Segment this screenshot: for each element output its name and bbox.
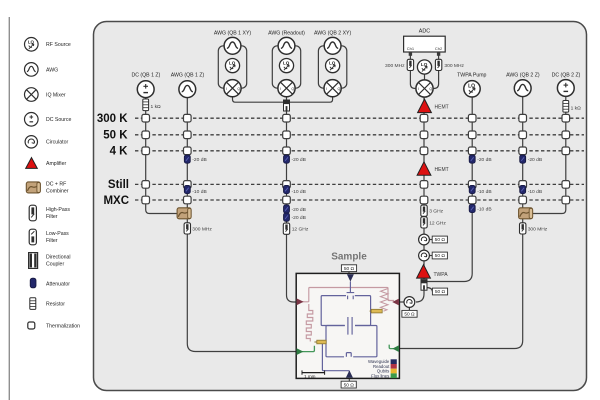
svg-text:Resistor: Resistor bbox=[46, 302, 65, 308]
svg-text:Filter: Filter bbox=[46, 238, 58, 244]
thermalization squares column DC (QB 2 Z) bbox=[562, 114, 570, 203]
svg-text:-20 dB: -20 dB bbox=[477, 157, 491, 163]
filter 300 MHz ADC Ch1 bbox=[385, 59, 414, 70]
wire AWG (QB 2 XY) mixer to coupler bbox=[289, 97, 333, 102]
svg-text:DC Source: DC Source bbox=[46, 117, 71, 123]
svg-text:Ch2: Ch2 bbox=[435, 46, 443, 51]
wire ADC Ch2 to mixer Q port bbox=[434, 52, 439, 89]
legend Low-Pass Filter bbox=[29, 229, 69, 245]
legend AWG bbox=[25, 63, 59, 77]
attenuator -10 dB TWPA pump column bbox=[469, 185, 491, 195]
filter 300 MHz ADC Ch2 bbox=[435, 59, 464, 70]
wire AWG (QB 1 XY) mixer to coupler bbox=[233, 97, 285, 102]
DC + RF combiner right bbox=[519, 208, 533, 219]
attenuator -20 dB col AWG (QB 1 Z) bbox=[184, 155, 206, 163]
svg-text:HEMT: HEMT bbox=[435, 105, 449, 111]
svg-text:-20 dB: -20 dB bbox=[292, 157, 306, 163]
waveguide middle coupling capacitor bbox=[348, 317, 352, 335]
svg-text:300 MHz: 300 MHz bbox=[385, 63, 405, 69]
fridge enclosure bbox=[94, 22, 587, 391]
svg-text:MXC: MXC bbox=[103, 195, 129, 207]
AWG (QB 2 XY) group bbox=[314, 30, 352, 96]
svg-text:Still: Still bbox=[108, 179, 129, 191]
svg-text:DC (QB 2 Z): DC (QB 2 Z) bbox=[552, 72, 581, 78]
attenuator -10 dB col AWG (QB 1 Z) bbox=[184, 185, 206, 195]
svg-text:1 kΩ: 1 kΩ bbox=[571, 106, 582, 112]
filter 3 GHz output column bbox=[421, 205, 444, 216]
thermalization squares column DC (QB 1 Z) bbox=[142, 114, 150, 203]
svg-text:DC (QB 1 Z): DC (QB 1 Z) bbox=[131, 72, 160, 78]
filter 300 MHz right flux bbox=[520, 223, 548, 234]
svg-text:1 kΩ: 1 kΩ bbox=[151, 104, 162, 110]
svg-text:TWPA: TWPA bbox=[434, 272, 449, 278]
50 ohm below sample bbox=[341, 378, 356, 388]
readout feedline (pink) bbox=[297, 288, 395, 302]
50 ohm above sample bbox=[341, 265, 356, 274]
svg-text:300 MHz: 300 MHz bbox=[444, 63, 464, 69]
chip legend colors bbox=[368, 359, 390, 378]
DC + RF combiner left bbox=[177, 208, 191, 219]
svg-text:-10 dB: -10 dB bbox=[477, 189, 491, 195]
svg-text:AWG: AWG bbox=[46, 67, 58, 73]
qubit 2 (yellow) bbox=[370, 309, 383, 313]
wire circulator 1 to 50 ohm bbox=[428, 239, 432, 241]
ADC box bbox=[404, 28, 446, 55]
legend Amplifier bbox=[26, 158, 67, 169]
HEMT amplifier at 300 K bbox=[418, 99, 449, 113]
wire circulator to sample right readout port bbox=[399, 301, 404, 303]
circulator 2 bbox=[419, 250, 430, 261]
qubit 1 (yellow) bbox=[314, 340, 326, 344]
svg-text:Coupler: Coupler bbox=[46, 261, 64, 267]
temperature stage 50 K dashed line bbox=[135, 134, 584, 136]
directional coupler joining XY and readout lines bbox=[284, 100, 290, 111]
svg-text:-20 dB: -20 dB bbox=[292, 207, 306, 213]
port arrow right flux (green) bbox=[392, 345, 399, 352]
svg-text:AWG (Readout): AWG (Readout) bbox=[268, 30, 305, 36]
RF source LO for ADC mixer bbox=[417, 60, 431, 74]
AWG (QB 1 XY) group bbox=[214, 30, 252, 96]
wire readout drive line down to sample left readout port bbox=[287, 97, 298, 302]
thermalization squares column AWG (QB 2 Z) bbox=[519, 114, 527, 203]
attenuator -20 dB readout below MXC first bbox=[284, 205, 306, 213]
legend RF Source bbox=[25, 38, 71, 52]
resistor 1 kOhm right bbox=[563, 101, 581, 113]
thermalization squares column AWG (QB 1 Z) bbox=[184, 114, 192, 203]
svg-text:Circulator: Circulator bbox=[46, 140, 68, 146]
AWG circle AWG (QB 2 Z) bbox=[506, 72, 540, 96]
temperature stage 300 K dashed line bbox=[135, 117, 584, 119]
left page rule bbox=[8, 17, 10, 400]
wire DC (QB 2 Z) column to combiner bbox=[533, 96, 566, 214]
TWPA amplifier bbox=[417, 265, 449, 279]
svg-text:Amplifier: Amplifier bbox=[46, 161, 66, 167]
50 ohm on circulator 2 bbox=[432, 252, 447, 259]
svg-text:IQ Mixer: IQ Mixer bbox=[46, 92, 66, 98]
thermalization squares readout drive column bbox=[283, 114, 291, 203]
attenuator -20 dB readout below MXC second bbox=[284, 213, 306, 221]
svg-text:-10 dB: -10 dB bbox=[477, 206, 491, 212]
directional coupler TWPA pump bbox=[421, 279, 427, 290]
wire DC (QB 1 Z) column to combiner bbox=[146, 98, 177, 214]
temperature stage MXC dashed line bbox=[135, 199, 584, 201]
svg-text:Attenuator: Attenuator bbox=[46, 281, 70, 287]
HEMT amplifier at 4 K bbox=[417, 162, 449, 176]
RF source TWPA Pump bbox=[457, 72, 486, 97]
svg-text:ADC: ADC bbox=[419, 28, 430, 34]
svg-text:AWG (QB 1 Z): AWG (QB 1 Z) bbox=[171, 72, 205, 78]
port arrow bottom (navy) bbox=[346, 370, 353, 377]
port arrow top (navy) bbox=[347, 274, 354, 281]
flux line left (green) bbox=[297, 346, 315, 352]
svg-text:Filter: Filter bbox=[46, 214, 58, 220]
legend Directional Coupler bbox=[29, 253, 71, 269]
svg-text:50 K: 50 K bbox=[103, 130, 128, 142]
legend DC Source bbox=[25, 113, 72, 127]
port arrow right readout (dark red) bbox=[392, 299, 399, 306]
svg-text:12 GHz: 12 GHz bbox=[429, 220, 446, 226]
svg-text:Low-Pass: Low-Pass bbox=[46, 231, 69, 237]
wire coupler to 50 ohm termination bbox=[427, 288, 433, 292]
sample box bbox=[296, 273, 399, 378]
wire TWPA pump line down to coupler bbox=[426, 97, 472, 282]
legend Thermalization bbox=[28, 322, 80, 330]
filter 300 MHz left flux bbox=[184, 223, 212, 234]
legend Resistor bbox=[30, 298, 65, 310]
thermalization squares TWPA pump column bbox=[468, 114, 476, 203]
svg-text:-10 dB: -10 dB bbox=[192, 189, 206, 195]
waveguide bottom coupling capacitor bbox=[346, 353, 351, 357]
scale bar 1 mm bbox=[302, 370, 325, 379]
legend Circulator bbox=[25, 136, 68, 148]
50 ohm below circulator 3 bbox=[402, 310, 417, 317]
svg-text:-10 dB: -10 dB bbox=[528, 189, 542, 195]
attenuator -20 dB readout column bbox=[284, 155, 306, 163]
legend Attenuator bbox=[30, 278, 70, 288]
wire AWG (QB 2 Z) flux line down to sample right flux port bbox=[399, 96, 523, 349]
DC source circle DC (QB 1 Z) bbox=[131, 72, 160, 97]
thermalization squares output column bbox=[420, 114, 428, 203]
wire circulator to 50 ohm termination bbox=[408, 307, 410, 311]
waveguide top coupling capacitor bbox=[347, 282, 355, 300]
AWG (Readout) group bbox=[268, 30, 305, 96]
svg-text:Ch1: Ch1 bbox=[407, 46, 415, 51]
legend IQ Mixer bbox=[25, 88, 66, 102]
temperature stage Still dashed line bbox=[135, 183, 584, 185]
legend High-Pass Filter bbox=[29, 205, 70, 221]
waveguide lower loop (navy) bbox=[326, 326, 377, 357]
svg-text:Thermalization: Thermalization bbox=[46, 324, 80, 330]
legend DC + RF Combiner bbox=[26, 181, 68, 194]
svg-text:-20 dB: -20 dB bbox=[292, 215, 306, 221]
temperature stage 4 K dashed line bbox=[135, 150, 584, 152]
attenuator -10 dB readout column bbox=[284, 185, 306, 195]
50 ohm on circulator 1 bbox=[432, 236, 447, 243]
wire AWG (QB 1 Z) flux line down to sample left flux port bbox=[187, 97, 297, 352]
resistor 1 kOhm left bbox=[143, 99, 161, 111]
circulator 3 before sample bbox=[404, 297, 415, 308]
port arrow left flux (green) bbox=[297, 348, 304, 355]
IQ mixer ADC bbox=[416, 80, 433, 97]
readout resonator 1 meander (pink) bbox=[306, 304, 313, 342]
svg-text:AWG (QB 2 XY): AWG (QB 2 XY) bbox=[314, 30, 352, 36]
filter 12 GHz readout column bbox=[283, 223, 309, 234]
svg-text:Combiner: Combiner bbox=[46, 188, 69, 194]
svg-text:Directional: Directional bbox=[46, 254, 71, 260]
svg-text:AWG (QB 2 Z): AWG (QB 2 Z) bbox=[506, 72, 540, 78]
wire LO to ADC mixer bbox=[424, 74, 426, 80]
attenuator -20 dB col AWG (QB 2 Z) bbox=[520, 155, 542, 163]
waveguide bottom port path (navy) bbox=[322, 342, 349, 378]
wire output amplifier chain down to circulator bbox=[416, 98, 424, 303]
attenuator -10 dB TWPA pump below MXC bbox=[469, 204, 491, 212]
filter 12 GHz output column bbox=[421, 217, 447, 228]
wire ADC Ch1 to mixer I port bbox=[410, 52, 415, 89]
svg-text:300 K: 300 K bbox=[97, 113, 128, 125]
svg-text:Flux lines: Flux lines bbox=[371, 373, 389, 378]
AWG circle AWG (QB 1 Z) bbox=[171, 72, 205, 97]
svg-text:High-Pass: High-Pass bbox=[46, 207, 70, 213]
DC source circle DC (QB 2 Z) bbox=[552, 72, 581, 96]
port arrow left readout (dark red) bbox=[297, 298, 304, 305]
svg-text:Sample: Sample bbox=[331, 252, 367, 263]
svg-text:-10 dB: -10 dB bbox=[292, 189, 306, 195]
svg-text:1 mm: 1 mm bbox=[304, 374, 316, 379]
attenuator -10 dB col AWG (QB 2 Z) bbox=[520, 185, 542, 195]
svg-text:300 MHz: 300 MHz bbox=[528, 226, 548, 232]
svg-text:TWPA Pump: TWPA Pump bbox=[457, 72, 486, 78]
flux line right (green) bbox=[389, 345, 399, 349]
svg-text:DC + RF: DC + RF bbox=[46, 181, 66, 187]
waveguide upper loop (navy) bbox=[321, 296, 370, 326]
attenuator -20 dB TWPA pump column bbox=[469, 155, 491, 163]
svg-text:RF Source: RF Source bbox=[46, 42, 71, 48]
svg-text:-20 dB: -20 dB bbox=[528, 157, 542, 163]
svg-text:12 GHz: 12 GHz bbox=[292, 227, 309, 233]
wire circulator 2 to 50 ohm bbox=[428, 255, 432, 257]
svg-text:4 K: 4 K bbox=[110, 146, 129, 158]
svg-text:-20 dB: -20 dB bbox=[192, 157, 206, 163]
svg-text:AWG (QB 1 XY): AWG (QB 1 XY) bbox=[214, 30, 252, 36]
svg-text:300 MHz: 300 MHz bbox=[192, 226, 212, 232]
readout resonator 2 meander (pink) bbox=[381, 289, 389, 312]
circulator 1 bbox=[419, 234, 430, 245]
50 ohm on pump coupler bbox=[432, 288, 447, 295]
svg-text:3 GHz: 3 GHz bbox=[429, 209, 443, 215]
svg-text:HEMT: HEMT bbox=[435, 167, 449, 173]
